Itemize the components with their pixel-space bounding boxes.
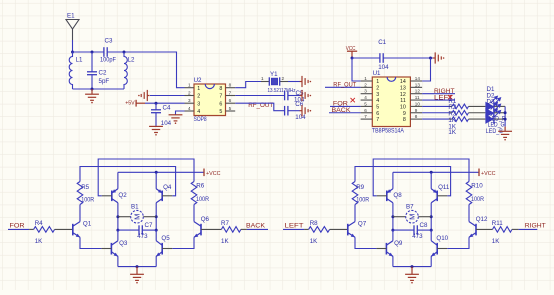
power VCC (347, 50, 357, 52)
wire to ground (91, 89, 93, 94)
transistor Q1 (73, 222, 80, 238)
wire Q10 collector (430, 230, 432, 241)
node motor right top (430, 215, 433, 218)
pin 14 U1 right stub (410, 80, 422, 82)
svg-text:1K: 1K (310, 238, 318, 245)
antenna E1 (66, 20, 79, 41)
wire Q8 emitter (392, 172, 394, 189)
svg-text:2: 2 (188, 91, 191, 96)
svg-text:Y1: Y1 (270, 71, 278, 78)
resistor R2 (449, 112, 452, 114)
wire RF_OUT to U1 pin2 (325, 86, 361, 88)
resistor R11 (476, 228, 493, 230)
pin 8 U2 right stub (226, 87, 236, 89)
wire D1 cathode (494, 105, 505, 107)
svg-text:RF_OUT: RF_OUT (333, 82, 356, 89)
capacitor C2 (91, 52, 93, 72)
transistor Q8 (387, 189, 393, 203)
LED D1 (485, 102, 494, 112)
wire R5 top to cross rail (80, 167, 176, 196)
pin 4 U2 left stub (185, 110, 195, 112)
wire top rail to C3 (73, 51, 104, 53)
pin 8 U1 right stub (410, 118, 422, 120)
resistor R6 (191, 182, 197, 205)
svg-text:R11: R11 (492, 220, 503, 227)
svg-text:C3: C3 (105, 37, 113, 44)
power +VCC (203, 169, 205, 177)
svg-text:473: 473 (137, 233, 148, 240)
no-connect X near LEFT (448, 95, 452, 99)
wire Q6 emitter to Q5 base (172, 237, 194, 248)
pin 3 U2 left stub (185, 102, 195, 104)
wire C6 to ground (288, 110, 300, 112)
svg-text:1K: 1K (35, 238, 43, 245)
svg-text:8: 8 (229, 83, 232, 88)
resistor R1 (449, 105, 452, 107)
pin 7 U1 left stub (361, 118, 373, 120)
crystal Y1 (261, 77, 288, 85)
wire Q4 emitter (155, 172, 157, 189)
pin 6 U2 right stub (226, 102, 236, 104)
node cap left (391, 229, 394, 232)
ground LEDs (498, 131, 512, 137)
svg-text:100R: 100R (471, 196, 484, 203)
svg-text:L1: L1 (76, 56, 83, 63)
wire U2 pin4 to ground (176, 111, 185, 115)
IC U1 body (372, 77, 410, 127)
wire U2 pin8 to Y1 (235, 82, 261, 88)
node Q11 emitter junction (430, 171, 433, 174)
node cap right (430, 229, 433, 232)
ground tank (85, 94, 99, 100)
svg-text:BACK: BACK (332, 107, 352, 114)
capacitor C6 (284, 106, 286, 116)
svg-text:8: 8 (403, 117, 406, 123)
resistor R7 (201, 228, 221, 230)
svg-text:C4: C4 (163, 105, 171, 112)
wire BACK to U1 pin6 (329, 112, 361, 114)
svg-text:1: 1 (197, 86, 200, 92)
node VCC junction (351, 57, 354, 60)
pin 12 U1 right stub (410, 93, 422, 95)
svg-text:4: 4 (188, 106, 191, 111)
svg-text:U2: U2 (194, 77, 202, 84)
ground U2 pin2 (141, 90, 149, 101)
LED D3 (485, 114, 494, 124)
svg-text:473: 473 (412, 233, 423, 240)
svg-text:VCC: VCC (346, 46, 356, 52)
ground C4 (149, 126, 163, 132)
svg-text:3: 3 (364, 89, 367, 94)
svg-text:FOR: FOR (10, 222, 26, 229)
power +5V (135, 100, 137, 107)
svg-text:4: 4 (376, 98, 379, 104)
wire Q1 collector to R5 (79, 205, 81, 222)
capacitor C1 (379, 53, 381, 63)
node motor left top (391, 215, 394, 218)
wire U2 pin2 to ground (150, 95, 185, 97)
pin 3 U1 left stub (361, 93, 373, 95)
wire Q11 collector to motor (430, 203, 432, 230)
wire Q5 collector (155, 230, 157, 241)
svg-text:Q6: Q6 (201, 216, 210, 223)
pin 2 U1 left stub (361, 86, 373, 88)
svg-text:D3: D3 (487, 98, 495, 105)
wire D3 cathode (494, 118, 505, 120)
svg-text:Q4: Q4 (163, 184, 172, 191)
node D3 cathode junction (504, 118, 507, 121)
base pin Q2 (102, 195, 112, 197)
pin 9 U1 right stub (410, 112, 422, 114)
svg-text:R4: R4 (35, 220, 43, 227)
capacitor C3 (103, 47, 105, 57)
svg-text:13: 13 (415, 82, 421, 87)
pin 4 U1 left stub (361, 99, 373, 101)
capacitor C8 (393, 229, 414, 231)
capacitor C5 (284, 91, 286, 101)
svg-text:SOP8: SOP8 (194, 116, 207, 123)
svg-text:Q5: Q5 (161, 235, 170, 242)
svg-text:12: 12 (400, 92, 406, 98)
wire to ground (136, 267, 138, 275)
wire net FOR (8, 228, 29, 230)
transistor Q12 (469, 222, 476, 238)
capacitor C4 (155, 103, 157, 110)
wire LED cathode bus (504, 106, 506, 126)
svg-text:6: 6 (229, 98, 232, 103)
wire to ground (411, 267, 413, 275)
svg-text:9: 9 (415, 108, 418, 113)
wire U1 pin11 LEFT (422, 99, 455, 101)
resistor R8 (304, 228, 309, 230)
svg-text:Q12: Q12 (476, 216, 488, 223)
svg-text:Q8: Q8 (393, 192, 402, 199)
node ground rail junction (411, 265, 414, 268)
svg-text:13: 13 (400, 85, 406, 91)
svg-text:+VCC: +VCC (206, 171, 221, 177)
motor B7 (393, 216, 406, 218)
node D2 cathode junction (504, 111, 507, 114)
transistor Q4 (156, 189, 162, 203)
IC U2 body (194, 84, 226, 116)
svg-text:R6: R6 (196, 183, 204, 190)
pin 2 U2 left stub (185, 95, 195, 97)
svg-text:R5: R5 (81, 184, 89, 191)
svg-text:R9: R9 (356, 184, 364, 191)
wire Q3 collector (117, 230, 119, 241)
base pin Q4 (162, 195, 172, 197)
wire +VCC rail (118, 171, 204, 173)
wire U1 pin9 to R2 (422, 112, 449, 114)
svg-text:Q7: Q7 (358, 221, 367, 228)
svg-text:100R: 100R (81, 197, 94, 204)
wire R9 top to cross rail (355, 167, 451, 196)
wire U1 pin12 RIGHT (422, 93, 455, 95)
svg-text:Q10: Q10 (436, 235, 448, 242)
motor B1 (118, 216, 131, 218)
wire Q2 collector to motor (117, 203, 119, 230)
transistor Q9 (386, 241, 393, 257)
wire +5V to U2 pin3 (145, 102, 185, 104)
pin 10 U1 right stub (410, 105, 422, 107)
svg-text:7: 7 (376, 117, 379, 123)
node Q4 emitter junction (155, 171, 158, 174)
wire Q12 emitter to Q10 base (447, 237, 469, 248)
svg-text:R8: R8 (310, 220, 318, 227)
svg-text:1: 1 (364, 76, 367, 81)
svg-text:7: 7 (364, 114, 367, 119)
inductor L1 (69, 52, 72, 89)
node C1 right junction (429, 57, 432, 60)
node C4 junction (155, 102, 158, 105)
svg-text:C2: C2 (99, 70, 107, 77)
svg-text:14: 14 (400, 79, 406, 85)
pin 11 U1 right stub (410, 99, 422, 101)
svg-text:C8: C8 (420, 222, 428, 229)
svg-text:3: 3 (376, 92, 379, 98)
svg-text:2: 2 (364, 82, 367, 87)
svg-text:1K: 1K (492, 238, 500, 245)
inductor L2 (124, 52, 127, 89)
transistor Q3 (111, 241, 118, 257)
wire C1 down to U1 pin14 (422, 58, 430, 81)
base pin Q8 (377, 195, 387, 197)
svg-text:Q9: Q9 (394, 240, 403, 247)
transistor Q10 (431, 241, 437, 257)
node cap left (116, 229, 119, 232)
node cap right (155, 229, 158, 232)
svg-text:7: 7 (229, 91, 232, 96)
svg-text:TB8P58S14A: TB8P58S14A (372, 128, 404, 134)
wire bottom of tank (73, 88, 125, 90)
resistor R10 (466, 182, 472, 205)
svg-text:Q1: Q1 (83, 221, 92, 228)
svg-text:5: 5 (219, 109, 222, 115)
wire +VCC rail (393, 171, 479, 173)
svg-text:U1: U1 (373, 70, 381, 77)
svg-text:100R: 100R (196, 196, 209, 203)
svg-text:6: 6 (376, 111, 379, 117)
wire U2 pin7 to C5 (235, 95, 284, 97)
wire Q2 base cross rail (98, 159, 194, 196)
ground C6 (300, 105, 308, 116)
wire Q8 collector to motor (392, 203, 394, 230)
node L2 top junction (123, 51, 126, 54)
pin 5 U1 left stub (361, 105, 373, 107)
wire VCC down to U1 pin1 (352, 58, 361, 81)
svg-text:B1: B1 (131, 204, 139, 211)
svg-text:4: 4 (197, 109, 200, 115)
ground B1 (130, 274, 144, 280)
svg-text:Q3: Q3 (119, 240, 128, 247)
svg-text:9: 9 (403, 111, 406, 117)
svg-text:1: 1 (376, 79, 379, 85)
wire emitters to ground rail (117, 256, 119, 266)
pin 1 U2 left stub (185, 87, 195, 89)
svg-text:1: 1 (188, 83, 191, 88)
wire C5 to ground (288, 95, 300, 97)
svg-text:104: 104 (295, 114, 306, 121)
svg-text:C7: C7 (145, 222, 153, 229)
node antenna/L1/C3 junction (71, 51, 74, 54)
LED D2 (485, 108, 494, 118)
pin 6 U1 left stub (361, 112, 373, 114)
svg-text:100pF: 100pF (100, 56, 116, 63)
node tank ground junction (91, 88, 94, 91)
svg-text:14: 14 (415, 76, 421, 81)
svg-text:5pF: 5pF (99, 78, 110, 85)
wire Q11 emitter (430, 172, 432, 189)
svg-text:R10: R10 (471, 183, 483, 190)
wire Q2 emitter (117, 172, 119, 189)
wire C3 to U2 pin1 (107, 52, 184, 88)
svg-text:11: 11 (400, 98, 406, 104)
ground C1 (433, 52, 441, 63)
wire FOR to U1 pin5 (330, 105, 361, 107)
svg-text:E1: E1 (67, 13, 75, 20)
node motor left top (116, 215, 119, 218)
svg-text:LEFT: LEFT (285, 222, 304, 229)
transistor Q5 (156, 241, 162, 257)
svg-text:10: 10 (415, 101, 421, 106)
wire Y1 to ground (288, 81, 300, 83)
wire C1 to ground/pin14 (383, 57, 433, 59)
svg-text:Q11: Q11 (438, 184, 450, 191)
svg-text:7: 7 (219, 94, 222, 100)
ground U2 pin4 (169, 115, 183, 121)
svg-text:B7: B7 (406, 204, 414, 211)
transistor Q7 (348, 222, 355, 238)
wire emitters to ground rail (392, 256, 394, 266)
svg-text:8: 8 (415, 114, 418, 119)
no-connect X on U1 pin4 (351, 98, 355, 102)
svg-text:4: 4 (364, 95, 367, 100)
svg-text:10: 10 (400, 105, 406, 111)
wire Q1 emitter to Q3 base (80, 237, 101, 248)
svg-text:M: M (408, 214, 417, 220)
svg-text:11: 11 (415, 95, 420, 100)
pin 7 U2 right stub (226, 95, 236, 97)
svg-text:RIGHT: RIGHT (525, 222, 546, 229)
node C2 top junction (91, 51, 94, 54)
wire Q4 collector to motor (155, 203, 157, 230)
ground C5 (300, 90, 308, 101)
node motor right top (155, 215, 158, 218)
wire VCC to C1 (352, 57, 380, 59)
transistor Q11 (431, 189, 437, 203)
svg-text:3: 3 (197, 101, 200, 107)
wire D2 cathode (494, 112, 505, 114)
svg-text:+VCC: +VCC (481, 171, 496, 177)
svg-text:M: M (133, 214, 142, 220)
svg-text:2: 2 (282, 76, 285, 81)
svg-text:2: 2 (376, 85, 379, 91)
svg-text:100R: 100R (356, 197, 369, 204)
wire bus to ground (504, 127, 506, 132)
node ground rail junction (136, 265, 139, 268)
wire Q7 emitter to Q9 base (355, 237, 376, 248)
svg-text:Q2: Q2 (118, 192, 127, 199)
base pin Q11 (437, 195, 447, 197)
svg-text:5: 5 (364, 101, 367, 106)
resistor R4 (29, 228, 33, 230)
resistor R9 (352, 182, 358, 205)
wire U1 pin10 to R1 (422, 105, 449, 107)
wire net LEFT (283, 228, 304, 230)
wire net BACK (247, 228, 268, 230)
wire U2 pin6 RF_OUT to C6 (235, 103, 284, 111)
resistor R3 (449, 118, 452, 120)
svg-text:1: 1 (261, 76, 264, 81)
wire Q8 base cross rail (373, 159, 469, 196)
svg-text:L2: L2 (128, 56, 135, 63)
svg-text:13.52117MHz: 13.52117MHz (268, 88, 296, 94)
svg-text:2: 2 (197, 94, 200, 100)
resistor R5 (77, 182, 83, 205)
transistor Q6 (194, 222, 201, 238)
svg-text:R7: R7 (221, 220, 229, 227)
svg-text:5: 5 (229, 106, 232, 111)
wire net RIGHT (519, 228, 538, 230)
svg-text:BACK: BACK (246, 222, 266, 229)
power +VCC (478, 169, 480, 177)
svg-text:C1: C1 (378, 39, 386, 46)
ground B7 (405, 274, 419, 280)
svg-text:6: 6 (219, 101, 222, 107)
svg-text:5: 5 (376, 105, 379, 111)
transistor Q2 (112, 189, 118, 203)
svg-text:3: 3 (188, 98, 191, 103)
ground Y1 (300, 76, 308, 87)
svg-text:+5V: +5V (125, 100, 135, 106)
wire Q7 collector to R9 (354, 205, 356, 222)
svg-text:1K: 1K (221, 238, 229, 245)
wire Q9 collector (392, 230, 394, 241)
pin 5 U2 right stub (226, 110, 236, 112)
svg-text:6: 6 (364, 108, 367, 113)
wire U1 pin8 to R3 (422, 118, 449, 120)
svg-text:12: 12 (415, 89, 421, 94)
svg-text:8: 8 (219, 86, 222, 92)
wire antenna to LC tank (72, 40, 74, 52)
capacitor C7 (118, 229, 139, 231)
pin 1 U1 left stub (361, 80, 373, 82)
svg-text:1K: 1K (448, 129, 456, 136)
pin 13 U1 right stub (410, 86, 422, 88)
